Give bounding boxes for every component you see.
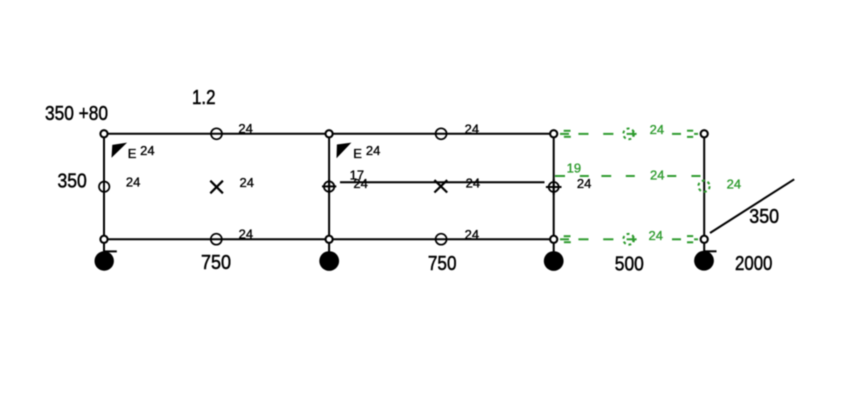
svg-text:2000: 2000 [735, 253, 772, 275]
support 3 filled circle [544, 251, 564, 271]
svg-text:24: 24 [465, 227, 479, 242]
svg-text:24: 24 [650, 122, 664, 137]
node top mid bay1 [211, 128, 222, 139]
wire middle beam bay2 [340, 181, 545, 183]
green dashed member top (500 bay) [560, 129, 698, 140]
node top col4 [701, 130, 708, 137]
node top col3 [550, 130, 557, 137]
svg-text:24: 24 [353, 176, 367, 191]
green dashed member middle (500 bay) [555, 175, 701, 177]
svg-text:24: 24 [577, 176, 591, 191]
svg-text:350 +80: 350 +80 [45, 103, 108, 125]
node bottom mid bay2 [436, 234, 447, 245]
svg-text:24: 24 [650, 168, 664, 183]
svg-text:E: E [128, 146, 137, 161]
svg-text:1.2: 1.2 [192, 87, 216, 109]
svg-text:24: 24 [727, 177, 741, 192]
support 2 filled circle [319, 251, 339, 271]
wire column 3 [553, 134, 555, 259]
node top col2 [326, 130, 333, 137]
flag E marker bay2 [337, 143, 352, 159]
support 1 filled circle [95, 251, 114, 270]
svg-text:24: 24 [465, 122, 479, 137]
wire column 2 [328, 134, 330, 259]
X element mark bay1 [210, 181, 223, 194]
svg-text:750: 750 [428, 253, 457, 275]
node bottom col2 [326, 236, 333, 243]
node bottom col3 [550, 236, 557, 243]
wire support tick 4 [704, 250, 716, 252]
svg-text:500: 500 [615, 253, 644, 275]
flag E marker bay1 [112, 143, 128, 158]
svg-text:750: 750 [201, 252, 231, 274]
node top mid bay2 [436, 128, 447, 139]
svg-text:24: 24 [240, 175, 254, 190]
node mid-left column [99, 182, 109, 192]
svg-text:24: 24 [140, 143, 154, 158]
svg-text:350: 350 [749, 206, 779, 228]
wire support tick 1 [105, 250, 117, 252]
wire bottom chord [104, 238, 554, 240]
node bottom mid bay1 [211, 234, 222, 245]
svg-text:24: 24 [649, 228, 663, 243]
svg-text:24: 24 [126, 175, 140, 190]
svg-text:24: 24 [366, 143, 380, 158]
node bottom col4 [701, 236, 708, 243]
green dashed member bottom (500 bay) [560, 234, 698, 245]
svg-text:24: 24 [238, 121, 252, 136]
svg-text:24: 24 [466, 175, 480, 190]
wire top chord [104, 133, 554, 135]
wire column 1 [103, 134, 105, 259]
node mid column2 with plus [322, 179, 336, 193]
node bottom-left [100, 236, 107, 243]
support 4 filled circle [694, 251, 714, 271]
X element mark bay2 [434, 180, 447, 192]
node top-left [100, 130, 107, 137]
svg-text:350: 350 [58, 170, 87, 192]
svg-text:24: 24 [239, 227, 253, 242]
green dashed node circle on column 4 mid [698, 181, 709, 192]
wire column 4 [703, 134, 705, 259]
svg-text:E: E [353, 146, 362, 161]
wire diagonal brace [710, 179, 794, 233]
node mid column3 with plus [546, 179, 562, 195]
svg-text:19: 19 [567, 160, 581, 175]
